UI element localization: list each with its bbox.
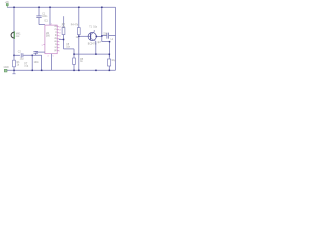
svg-text:C2: C2 [18, 51, 22, 53]
resistor R4 [71, 7, 80, 70]
wire horizontal y54 [74, 53, 109, 55]
svg-text:10µ: 10µ [24, 66, 29, 68]
IC1 right pin numbers [59, 26, 62, 52]
wire top bus [7, 6, 115, 8]
resistor R1 [13, 60, 21, 67]
svg-text:10p: 10p [93, 26, 98, 28]
wire C2 to corner [23, 54, 41, 56]
node junctions top bus [38, 7, 102, 9]
node junction x32 [32, 55, 34, 57]
wire top bus down x101.8 [101, 7, 103, 41]
wire right bus vertical [115, 7, 117, 70]
node junctions middle [63, 35, 111, 55]
svg-text:R4 47k: R4 47k [71, 24, 79, 26]
svg-text:tr: tr [55, 31, 57, 34]
svg-text:13: 13 [59, 29, 62, 31]
IC1 right pin names inside [54, 26, 57, 52]
wire bottom bus [6, 69, 116, 71]
wire C1 to IC [39, 24, 45, 26]
wire R3 bottom corner right [64, 48, 75, 50]
svg-text:5: 5 [53, 56, 55, 58]
node junction left C2 [13, 55, 15, 57]
svg-text:11: 11 [59, 35, 62, 37]
wire R4 node to Q1 base [79, 35, 91, 37]
capacitor C9 bottom-right [108, 54, 116, 70]
wire left vertical to C2 [14, 54, 20, 56]
svg-text:1k: 1k [17, 65, 20, 67]
svg-text:4p7: 4p7 [97, 42, 102, 44]
svg-text:10µ: 10µ [111, 60, 116, 62]
ground symbol bottom-left [12, 70, 15, 74]
wire corner x101.8 to x109.5 [102, 41, 110, 43]
wire corner x41.6 down to bus [41, 55, 43, 70]
svg-text:12: 12 [59, 32, 62, 34]
svg-text:LM: LM [46, 33, 49, 35]
svg-text:1k: 1k [80, 61, 83, 63]
wire Q1 collector node to x101.8 [96, 35, 102, 37]
wire left vertical [13, 7, 15, 70]
capacitor C3 [33, 51, 39, 64]
wire C3 to IC pin [36, 51, 45, 53]
svg-text:6: 6 [59, 50, 61, 52]
resistor R5 [73, 49, 84, 70]
supply flag +9V top-left [5, 2, 10, 7]
supply flag GND bottom-left [4, 67, 9, 72]
svg-text:8: 8 [59, 44, 61, 46]
svg-text:10k: 10k [61, 27, 66, 29]
op-amp IC1 body [44, 21, 57, 54]
svg-text:9: 9 [59, 41, 61, 43]
capacitor C2 (series) [18, 51, 24, 60]
svg-text:T1: T1 [89, 26, 92, 28]
IC1 left pin stub pin 3 [43, 44, 45, 46]
svg-text:1k: 1k [76, 37, 79, 39]
svg-text:3: 3 [42, 45, 44, 47]
svg-text:100n: 100n [42, 16, 48, 18]
wire x109.5 down [109, 42, 111, 57]
microphone MK1 [11, 31, 21, 39]
svg-text:7: 7 [59, 47, 61, 49]
svg-text:+9V: +9V [5, 2, 10, 4]
resistor R3 [61, 16, 66, 49]
wire Q1 emitter down [95, 41, 97, 54]
capacitor C8 (horizontal to right bus) [102, 33, 116, 39]
svg-text:100n: 100n [34, 62, 40, 64]
wire IC pin to R3 node [59, 38, 64, 40]
node junction top-left corner [13, 7, 15, 9]
svg-text:10µ: 10µ [20, 58, 25, 60]
svg-text:GND: GND [4, 67, 9, 69]
svg-text:mic: mic [16, 36, 20, 38]
svg-text:10n: 10n [66, 46, 71, 48]
svg-text:L1: L1 [111, 39, 114, 41]
svg-text:4: 4 [47, 56, 49, 58]
svg-text:IC1: IC1 [44, 21, 48, 23]
node junctions bottom bus [13, 70, 110, 72]
wire IC bottom pin to bus [51, 54, 53, 71]
capacitor C1 [36, 7, 48, 24]
transistor Q1 BC547B [88, 26, 98, 45]
IC1 right pin stubs [57, 26, 59, 50]
wire x32 down to bus [31, 55, 33, 70]
wire top bus to IC top pin [49, 7, 51, 25]
